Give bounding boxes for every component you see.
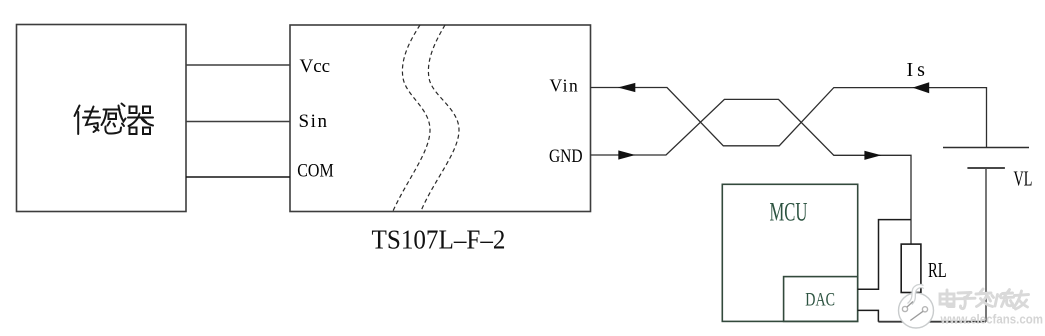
pin label COM xyxy=(297,159,334,181)
wire Vcc xyxy=(186,64,290,66)
isolation barrier dashed curve left xyxy=(393,25,430,211)
MCU box xyxy=(722,184,857,321)
watermark text 电子发烧友 xyxy=(940,289,1029,309)
wire DAC out 1 to RL node xyxy=(858,220,911,290)
DAC box xyxy=(784,277,858,322)
arrow into Vin (left) xyxy=(618,83,636,92)
bottom return wire xyxy=(878,321,986,323)
watermark logo circle xyxy=(899,284,934,328)
wire battery minus down xyxy=(985,168,987,322)
感 xyxy=(104,109,120,111)
battery VL short plate (-) xyxy=(967,167,1005,169)
svg-text:MCU: MCU xyxy=(770,198,808,227)
svg-text:Vin: Vin xyxy=(550,76,580,96)
svg-text:VL: VL xyxy=(1014,167,1033,191)
svg-text:Vcc: Vcc xyxy=(300,56,331,77)
svg-text:Is: Is xyxy=(907,59,929,81)
arrow toward RL (right) xyxy=(864,151,881,160)
svg-text:GND: GND xyxy=(549,145,583,166)
label DAC xyxy=(805,289,835,311)
sensor label 传感器 (drawn strokes) xyxy=(75,104,154,135)
svg-text:DAC: DAC xyxy=(805,289,835,311)
sensor box 传感器 xyxy=(17,25,187,212)
label MCU xyxy=(770,198,808,227)
svg-text:RL: RL xyxy=(928,258,947,281)
传 xyxy=(75,106,80,117)
wire Sin xyxy=(186,121,290,123)
arrow Is (left) xyxy=(913,82,930,93)
arrow out of GND (right) xyxy=(618,150,635,159)
wire GND to RL (twisted pair conductor B) xyxy=(591,99,912,244)
wire Vin to battery (twisted pair conductor A) xyxy=(591,88,987,148)
svg-text:TS107L–F–2: TS107L–F–2 xyxy=(372,225,506,255)
wire COM xyxy=(186,176,290,178)
resistor RL xyxy=(901,244,921,292)
isolation barrier dashed curve right xyxy=(421,25,459,211)
svg-text:COM: COM xyxy=(297,159,334,181)
svg-text:www.elecfans.com: www.elecfans.com xyxy=(940,312,1043,327)
label VL xyxy=(1014,167,1033,191)
器 xyxy=(130,107,137,114)
wire DAC out 2 to bottom return xyxy=(858,310,879,321)
label RL xyxy=(928,258,947,281)
isolation amplifier box TS107L-F-2 xyxy=(290,25,591,212)
svg-text:Sin: Sin xyxy=(299,111,329,132)
battery VL long plate (+) xyxy=(943,147,1029,149)
wire RL bottom to return xyxy=(910,293,912,322)
pin label GND xyxy=(549,145,583,166)
